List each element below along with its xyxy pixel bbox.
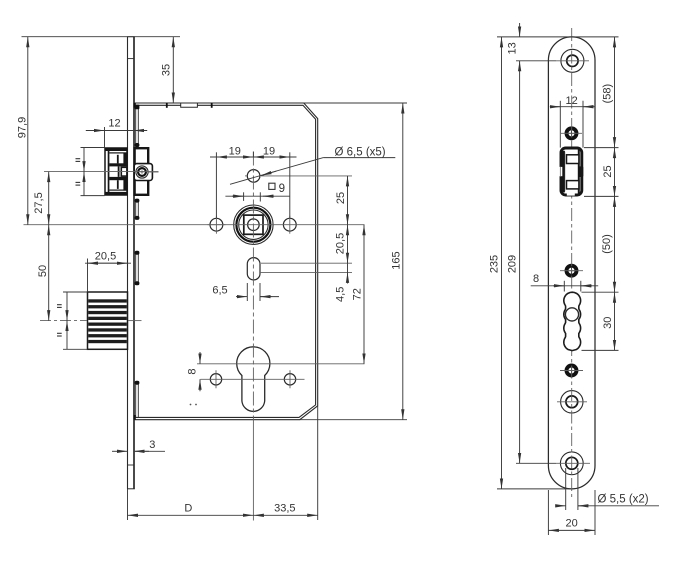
svg-text:8: 8 [533,273,539,285]
svg-text:13: 13 [507,42,519,54]
svg-text:72: 72 [351,288,363,300]
svg-text:25: 25 [602,165,614,177]
svg-text:165: 165 [391,251,403,269]
svg-text:35: 35 [161,64,173,76]
svg-text:97,9: 97,9 [17,117,29,138]
svg-text:3: 3 [149,439,155,451]
svg-text:20,5: 20,5 [95,251,116,263]
svg-text:50: 50 [37,265,49,277]
svg-text:19: 19 [263,146,275,158]
svg-text:209: 209 [506,255,518,273]
svg-text:19: 19 [229,146,241,158]
svg-text:25: 25 [335,192,347,204]
svg-text:235: 235 [488,255,500,273]
svg-text:D: D [184,503,192,515]
svg-text:4,5: 4,5 [335,287,347,302]
svg-text:(58): (58) [602,84,614,104]
svg-text:Ø 6,5 (x5): Ø 6,5 (x5) [335,146,386,158]
svg-text:(50): (50) [601,234,613,254]
svg-text:20: 20 [565,518,577,530]
svg-text:8: 8 [186,368,198,374]
svg-text:9: 9 [279,183,285,195]
svg-text:27,5: 27,5 [33,192,45,213]
svg-text:6,5: 6,5 [212,285,227,297]
svg-text:20,5: 20,5 [335,233,347,254]
svg-text:12: 12 [565,95,577,107]
svg-text:33,5: 33,5 [274,503,295,515]
svg-text:30: 30 [602,317,614,329]
svg-text:Ø 5,5 (x2): Ø 5,5 (x2) [598,494,649,506]
svg-text:12: 12 [108,118,120,130]
